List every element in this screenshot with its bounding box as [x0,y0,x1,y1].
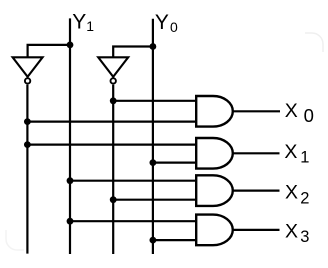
junction dot on Y0' for G1 [110,97,117,104]
wire: Y0 tap to inverter U2 input [113,47,153,58]
wire: Y1' to AND gate G1 bottom input [27,120,196,122]
svg-text:1: 1 [86,18,94,34]
wire: vertical net Y1' (inverter U1 output) [26,85,28,254]
wire: G4 output to X3 [233,229,280,231]
wire: G3 output to X2 [233,190,280,192]
faint card corner bottom-left (decorative) [6,230,24,250]
wire: Y1 tap to inverter U1 input [28,45,70,57]
junction dot on Y0 for G4 [150,237,157,244]
junction dot on Y0 for G2 [150,159,157,166]
AND gate G2 (output X1) [196,138,233,169]
junction dot on Y1 for G3 [67,177,74,184]
junction dot on Y1' for G2 [24,141,31,148]
faint card corner top-right (decorative) [305,33,323,52]
inverter U1 (NOT gate for Y1) [13,57,43,83]
svg-text:0: 0 [170,19,178,35]
svg-text:X: X [285,181,298,203]
svg-text:Y: Y [155,11,169,34]
wire: vertical net Y0 [152,19,154,254]
wire: Y0' to AND gate G3 bottom input [113,199,196,201]
AND gate G4 (output X3) [196,215,233,246]
AND gate G1 (output X0) [196,96,233,127]
junction dot on Y0 at inverter tap [150,43,157,50]
svg-text:2: 2 [300,189,309,207]
wire: Y1 to AND gate G4 top input [70,220,196,222]
wire: Y1' to AND gate G2 top input [27,144,196,146]
wire: Y1 to AND gate G3 top input [70,180,196,182]
wire: Y0 to AND gate G4 bottom input [153,239,196,241]
svg-text:1: 1 [300,149,309,167]
svg-text:0: 0 [304,105,314,126]
wire: vertical net Y1 [69,18,71,254]
svg-text:X: X [285,221,298,243]
wire: Y0' to AND gate G1 top input [113,100,196,102]
label X1 [284,141,309,167]
junction dot on Y1' for G1 [24,118,31,125]
svg-text:X: X [285,100,298,122]
label X3 [285,221,309,247]
svg-text:3: 3 [300,228,309,246]
svg-text:Y: Y [72,11,86,34]
junction dot on Y1 for G4 [67,218,74,225]
label X2 [285,181,309,207]
label X0 [285,100,314,126]
wire: G2 output to X1 [233,152,280,154]
junction dot on Y0' for G3 [110,196,117,203]
junction dot on Y1 at inverter tap [67,42,74,49]
wire: Y0 to AND gate G2 bottom input [153,162,196,164]
label Y0 [155,11,178,35]
svg-text:X: X [284,141,297,163]
label Y1 [72,11,94,35]
inverter U2 (NOT gate for Y0) [98,57,128,83]
AND gate G3 (output X2) [196,175,233,206]
wire: vertical net Y0' (inverter U2 output) [112,85,114,254]
wire: G1 output to X0 [233,110,280,112]
